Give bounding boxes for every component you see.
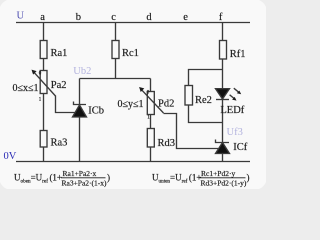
svg-text:Re2: Re2 bbox=[195, 95, 212, 106]
wire Pa2 wiper to ICb ref bbox=[56, 96, 76, 113]
wire Rc1 to node Ub2 bbox=[115, 59, 117, 79]
svg-text:d: d bbox=[146, 12, 152, 23]
card background bbox=[0, 0, 267, 190]
wire node Ub2 down to Pd2 (column d) bbox=[150, 79, 152, 92]
potentiometer Pd2 wiper arrow bbox=[139, 87, 163, 113]
LED LEDf triangle bbox=[216, 89, 230, 99]
formula U_oben bbox=[14, 169, 110, 188]
resistor Rd3 bbox=[147, 129, 154, 148]
shunt regulator ICb triangle bbox=[73, 105, 87, 117]
svg-text:Ra3: Ra3 bbox=[51, 138, 68, 149]
wire ICb anode to 0V rail bbox=[79, 117, 81, 162]
wire Ra1 to Pa2 bbox=[43, 59, 45, 71]
svg-text:ICb: ICb bbox=[88, 105, 104, 116]
wire node below Rf1 to Re2 bbox=[189, 70, 223, 86]
svg-text:LEDf: LEDf bbox=[220, 105, 244, 116]
wire Pd2 wiper to ICf ref bbox=[164, 114, 219, 149]
resistor Rc1 bbox=[112, 41, 119, 59]
svg-text:f: f bbox=[219, 12, 223, 23]
wire rail to Rf1 (column f) bbox=[222, 23, 224, 41]
svg-text:ICf: ICf bbox=[233, 142, 248, 153]
shunt regulator ICf cathode bar bbox=[216, 140, 230, 143]
wire top supply rail U bbox=[16, 22, 250, 24]
resistor Rf1 bbox=[220, 41, 227, 60]
svg-text:Rf1: Rf1 bbox=[230, 49, 246, 60]
wire Re2 to node Uf3 bbox=[189, 105, 223, 123]
LED LEDf emission arrows bbox=[230, 88, 242, 100]
wire Rf1 to LEDf anode bbox=[222, 59, 224, 89]
wire rail to Rc1 (column c) bbox=[115, 23, 117, 41]
wire node Ub2 horizontal bbox=[80, 78, 151, 80]
LED LEDf cathode bar bbox=[216, 99, 229, 101]
svg-text:Ra1+Pa2·x: Ra1+Pa2·x bbox=[63, 169, 97, 178]
shunt regulator ICb cathode bar bbox=[74, 102, 87, 105]
svg-text:0≤x≤1: 0≤x≤1 bbox=[13, 83, 39, 94]
wire Pa2 to Ra3 bbox=[43, 94, 45, 131]
formula U_unten bbox=[152, 169, 250, 188]
svg-text:Uf3: Uf3 bbox=[227, 127, 243, 138]
resistor Re2 bbox=[185, 86, 193, 106]
potentiometer Pa2 wiper arrow bbox=[32, 70, 56, 96]
svg-text:Rd3: Rd3 bbox=[158, 138, 176, 149]
wire rail to Ra1 (column a) bbox=[43, 23, 45, 41]
potentiometer Pa2 body bbox=[40, 71, 47, 94]
svg-text:Ra3+Pa2·(1-x): Ra3+Pa2·(1-x) bbox=[62, 179, 108, 188]
svg-text:): ) bbox=[247, 173, 250, 183]
svg-text:Pa2: Pa2 bbox=[51, 80, 67, 91]
svg-text:c: c bbox=[111, 12, 116, 23]
resistor Ra1 bbox=[40, 41, 47, 59]
svg-text:b: b bbox=[76, 12, 81, 23]
svg-text:a: a bbox=[40, 12, 45, 23]
svg-text:Ub2: Ub2 bbox=[73, 66, 91, 77]
wire node Ub2 down to ICb cathode bbox=[79, 79, 81, 105]
svg-text:0V: 0V bbox=[4, 151, 17, 162]
svg-text:Rc1+Pd2·y: Rc1+Pd2·y bbox=[201, 169, 235, 178]
svg-text:Rd3+Pd2·(1-y): Rd3+Pd2·(1-y) bbox=[201, 179, 247, 188]
svg-text:): ) bbox=[107, 173, 110, 183]
wire LEDf cathode to ICf bbox=[222, 100, 224, 143]
svg-text:Rc1: Rc1 bbox=[122, 48, 139, 59]
svg-text:0≤y≤1: 0≤y≤1 bbox=[118, 99, 144, 110]
wire Ra3 to 0V rail bbox=[43, 147, 45, 162]
svg-text:U: U bbox=[17, 11, 25, 22]
wire ICf anode to 0V rail bbox=[222, 154, 224, 162]
wire Pd2 to Rd3 bbox=[150, 115, 152, 129]
potentiometer Pd2 body bbox=[147, 92, 154, 115]
svg-text:Ra1: Ra1 bbox=[51, 48, 68, 59]
svg-text:e: e bbox=[183, 12, 188, 23]
wire bottom rail 0V bbox=[16, 161, 250, 163]
shunt regulator ICf triangle bbox=[216, 143, 230, 154]
svg-text:Pd2: Pd2 bbox=[158, 99, 174, 110]
wire Rd3 to 0V rail bbox=[150, 147, 152, 162]
resistor Ra3 bbox=[40, 131, 47, 148]
